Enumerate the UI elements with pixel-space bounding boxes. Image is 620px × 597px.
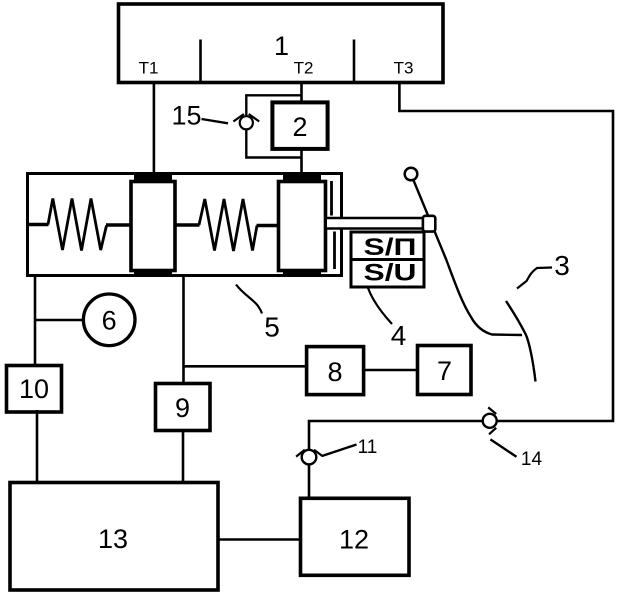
wire branch to box 8 — [184, 365, 307, 368]
svg-text:3: 3 — [554, 250, 570, 281]
wire box 9 to box 13 — [182, 431, 185, 484]
box 1 (power unit) — [119, 4, 444, 83]
lever top circle — [405, 168, 418, 181]
svg-text:1: 1 — [274, 31, 289, 61]
solenoid plunger L1 — [131, 175, 175, 278]
leader 5 — [236, 285, 262, 314]
node circle 11 — [296, 450, 323, 465]
rod from plunger L2 — [327, 218, 424, 229]
wire T1 to solenoid L1 — [153, 82, 156, 176]
wire T3 long run — [309, 82, 613, 497]
svg-text:2: 2 — [292, 112, 307, 142]
assembly box 5 outer — [28, 174, 342, 276]
svg-text:7: 7 — [437, 356, 452, 386]
svg-text:S/Π: S/Π — [364, 234, 417, 261]
leader 3 — [517, 268, 552, 289]
svg-text:14: 14 — [521, 449, 543, 470]
svg-text:15: 15 — [171, 101, 201, 131]
wire to gauge 6 — [36, 319, 84, 322]
box 9 — [156, 384, 211, 431]
gauge circle 6 — [83, 294, 135, 346]
leader 14 — [490, 439, 516, 456]
svg-text:T2: T2 — [294, 59, 314, 78]
wire assembly to box 9 — [182, 277, 185, 384]
pedal arc 3 — [506, 301, 536, 382]
leader 15 — [202, 119, 229, 123]
box 2 — [272, 102, 327, 148]
svg-text:5: 5 — [264, 312, 280, 343]
assembly inner wall right of plunger L2 — [332, 181, 335, 269]
wire box 13 to box 12 — [218, 538, 301, 541]
wire T2 to box 2 — [300, 82, 303, 103]
switch box 4 (S/U) — [351, 232, 424, 287]
box 7 — [418, 346, 472, 395]
svg-text:9: 9 — [175, 393, 190, 423]
svg-text:6: 6 — [102, 306, 117, 336]
wire box 2 to solenoid L2 — [300, 148, 303, 176]
svg-text:4: 4 — [391, 320, 407, 351]
spring S2 — [176, 199, 279, 251]
node circle 14 — [483, 407, 497, 434]
sensor symbol 15 (circle with chevron) — [233, 114, 259, 129]
svg-text:10: 10 — [19, 374, 49, 404]
leader 4 — [368, 288, 392, 324]
wire box 10 to box 13 — [36, 410, 39, 483]
svg-text:T3: T3 — [394, 59, 414, 78]
svg-text:S/U: S/U — [364, 260, 417, 287]
box 13 — [10, 483, 218, 591]
box 8 — [307, 347, 364, 395]
box 12 — [301, 498, 410, 575]
svg-text:11: 11 — [358, 437, 378, 458]
wire box 8 to box 7 — [364, 369, 418, 371]
leader 11 — [322, 445, 357, 457]
spring S1 — [28, 199, 132, 251]
box 10 — [7, 366, 62, 413]
pivot square on rod — [423, 216, 435, 232]
solenoid plunger L2 — [279, 175, 326, 278]
svg-text:13: 13 — [98, 524, 128, 554]
wire bypass loop around box 2 — [246, 95, 301, 157]
svg-text:8: 8 — [327, 357, 342, 387]
wire assembly to box 10 — [34, 277, 37, 367]
svg-text:12: 12 — [339, 524, 369, 554]
svg-text:T1: T1 — [139, 59, 159, 78]
lever 3 line — [414, 181, 522, 335]
